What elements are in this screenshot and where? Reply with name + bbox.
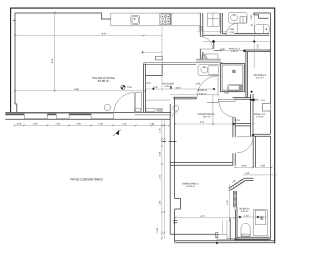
svg-text:33.08 m²: 33.08 m² <box>98 79 110 83</box>
svg-text:1.40: 1.40 <box>159 200 162 205</box>
svg-text:4.71: 4.71 <box>200 215 205 218</box>
svg-text:0.90: 0.90 <box>242 165 247 168</box>
svg-text:1.41 m²: 1.41 m² <box>256 76 264 79</box>
svg-text:1.90: 1.90 <box>76 122 81 125</box>
svg-text:3.45: 3.45 <box>159 151 162 156</box>
svg-text:0.45: 0.45 <box>156 227 159 232</box>
svg-text:12.28 m²: 12.28 m² <box>186 185 195 188</box>
svg-text:3.71: 3.71 <box>200 121 205 124</box>
svg-text:0.60: 0.60 <box>176 86 181 89</box>
svg-text:0.56: 0.56 <box>17 122 22 125</box>
svg-text:0.67: 0.67 <box>199 26 204 29</box>
svg-text:1.05: 1.05 <box>159 128 162 133</box>
svg-text:1.79 m²: 1.79 m² <box>256 115 264 118</box>
svg-text:4.10 m²: 4.10 m² <box>164 85 172 88</box>
svg-text:1.99: 1.99 <box>153 86 158 89</box>
svg-text:0.15: 0.15 <box>235 119 240 122</box>
svg-text:8.17 m²: 8.17 m² <box>203 116 211 119</box>
svg-text:0.88: 0.88 <box>250 15 253 20</box>
svg-text:2.30: 2.30 <box>226 200 229 205</box>
svg-text:0.90: 0.90 <box>256 44 259 49</box>
svg-text:0.15: 0.15 <box>199 29 204 32</box>
svg-text:2.48: 2.48 <box>229 31 234 34</box>
svg-text:3.30 m²: 3.30 m² <box>199 92 207 95</box>
svg-text:DORMITORIO 2: DORMITORIO 2 <box>198 113 216 116</box>
svg-text:1.50: 1.50 <box>159 174 162 179</box>
svg-text:1.54: 1.54 <box>244 214 249 217</box>
svg-text:3.20 m²: 3.20 m² <box>241 210 249 213</box>
svg-text:1.40: 1.40 <box>122 122 127 125</box>
svg-text:0.80: 0.80 <box>224 92 229 95</box>
svg-text:8.52: 8.52 <box>102 32 107 35</box>
svg-text:2.15: 2.15 <box>150 122 155 125</box>
svg-text:9.86: 9.86 <box>74 88 79 91</box>
svg-text:0.88: 0.88 <box>229 28 234 31</box>
svg-text:0.85: 0.85 <box>220 48 225 51</box>
svg-text:0.70: 0.70 <box>146 82 151 85</box>
svg-text:1.45: 1.45 <box>55 122 60 125</box>
svg-text:0.60: 0.60 <box>261 165 266 168</box>
svg-text:0.55: 0.55 <box>196 83 201 86</box>
svg-text:4.20 m²: 4.20 m² <box>231 50 239 53</box>
svg-text:DORMITORIO 1: DORMITORIO 1 <box>182 183 200 186</box>
svg-text:PATIO COMUNITARIO: PATIO COMUNITARIO <box>70 178 103 182</box>
svg-text:1.50: 1.50 <box>98 122 103 125</box>
svg-text:2.59: 2.59 <box>127 86 132 89</box>
svg-text:4.92: 4.92 <box>51 58 54 63</box>
svg-text:1.05: 1.05 <box>245 172 250 175</box>
svg-text:1.90: 1.90 <box>33 122 38 125</box>
